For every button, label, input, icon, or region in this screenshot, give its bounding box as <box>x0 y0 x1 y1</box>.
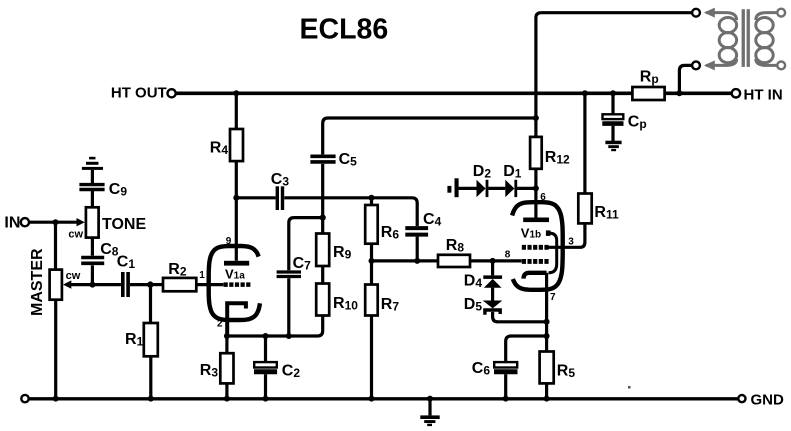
svg-text:MASTER: MASTER <box>29 248 46 316</box>
svg-text:cw: cw <box>66 270 81 282</box>
svg-text:R8: R8 <box>446 237 465 255</box>
svg-text:R6: R6 <box>381 224 400 242</box>
svg-text:2: 2 <box>217 318 223 329</box>
svg-text:GND: GND <box>751 391 785 408</box>
svg-text:6: 6 <box>540 192 546 203</box>
svg-text:Cp: Cp <box>628 114 647 132</box>
svg-text:8: 8 <box>505 249 511 260</box>
svg-text:Rp: Rp <box>640 69 659 87</box>
svg-text:TONE: TONE <box>102 216 146 233</box>
svg-text:C4: C4 <box>423 211 442 229</box>
svg-text:3: 3 <box>568 237 574 248</box>
svg-text:9: 9 <box>226 236 232 247</box>
svg-text:HT OUT: HT OUT <box>111 84 167 101</box>
svg-text:C9: C9 <box>109 181 128 199</box>
svg-text:C5: C5 <box>339 151 358 169</box>
svg-text:R5: R5 <box>557 363 576 381</box>
svg-text:R11: R11 <box>594 204 619 222</box>
svg-text:R1: R1 <box>125 331 144 349</box>
svg-text:R10: R10 <box>333 295 358 313</box>
svg-text:R12: R12 <box>545 149 570 167</box>
svg-text:C1: C1 <box>117 253 136 271</box>
svg-text:R2: R2 <box>168 261 187 279</box>
svg-text:HT IN: HT IN <box>744 86 783 103</box>
svg-text:D4: D4 <box>464 272 483 290</box>
svg-text:R4: R4 <box>210 139 229 157</box>
svg-text:C2: C2 <box>282 362 301 380</box>
svg-text:C3: C3 <box>271 171 290 189</box>
svg-text:1: 1 <box>199 270 205 281</box>
svg-text:R3: R3 <box>200 362 219 380</box>
svg-text:R9: R9 <box>333 244 352 262</box>
svg-text:IN: IN <box>4 215 20 232</box>
svg-text:7: 7 <box>550 292 556 303</box>
svg-text:ECL86: ECL86 <box>300 13 389 45</box>
svg-text:C6: C6 <box>472 360 491 378</box>
svg-text:R7: R7 <box>381 296 400 314</box>
svg-text:D1: D1 <box>503 163 522 181</box>
svg-text:D5: D5 <box>464 296 483 314</box>
svg-text:D2: D2 <box>473 163 492 181</box>
svg-text:C7: C7 <box>293 255 312 273</box>
svg-text:cw: cw <box>68 228 83 240</box>
